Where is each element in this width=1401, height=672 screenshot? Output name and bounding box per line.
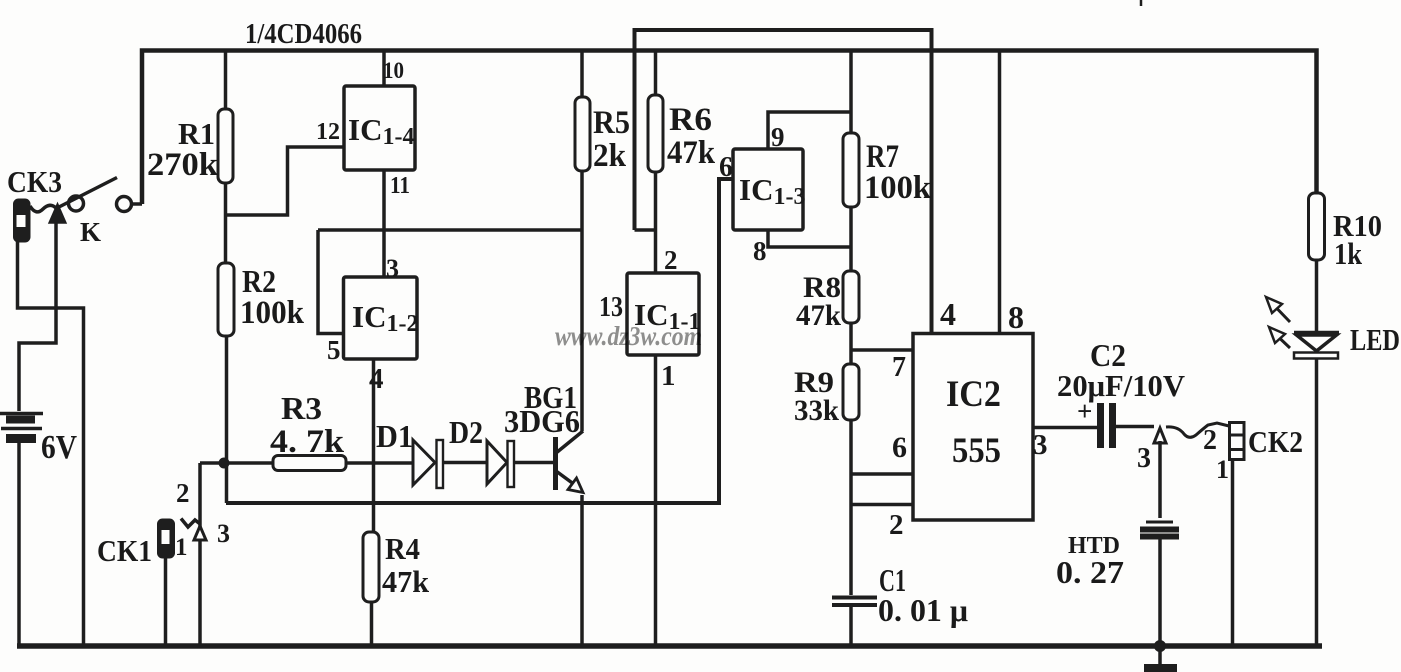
svg-text:D1: D1 [376, 418, 413, 454]
IC U2 555 timer [913, 334, 1033, 521]
svg-text:11: 11 [390, 173, 410, 199]
resistor R2 [218, 263, 234, 463]
svg-text:12: 12 [316, 119, 340, 145]
jack CK1 [158, 519, 175, 558]
pin 3 wire [1033, 426, 1097, 430]
resistor R8 [843, 271, 859, 323]
svg-text:3: 3 [1033, 429, 1048, 461]
pin 4 label [940, 296, 956, 332]
svg-text:R4: R4 [385, 531, 420, 566]
pin 3 wire [382, 230, 386, 278]
wire loop jog to R6 line [635, 228, 656, 232]
scan mark [1140, 0, 1143, 6]
label R8 47k [796, 271, 841, 332]
label R6 47k [667, 102, 716, 171]
label CK2 [1137, 424, 1303, 484]
resistor R7 [843, 51, 859, 271]
svg-text:D2: D2 [449, 414, 483, 450]
svg-text:CK3: CK3 [7, 164, 62, 199]
svg-text:IC2: IC2 [946, 374, 1001, 415]
svg-text:9: 9 [771, 122, 785, 152]
pin 8 wire [998, 51, 1002, 334]
label R5 2k [593, 105, 630, 174]
label R2 100k [240, 263, 305, 331]
battery 6V [0, 414, 43, 647]
label LED [1350, 322, 1400, 357]
wire dot to feedback line [225, 463, 229, 503]
wire CK3 sleeve to ground rail [18, 241, 84, 644]
label R1 270k [147, 116, 219, 183]
svg-text:CK1: CK1 [97, 533, 152, 568]
label C1 0.01u [878, 562, 968, 628]
svg-text:2k: 2k [593, 138, 627, 174]
label R10 1k [1333, 208, 1382, 271]
svg-text:1k: 1k [1334, 236, 1363, 271]
capacitor C2 [1101, 403, 1155, 448]
svg-text:K: K [80, 217, 101, 247]
svg-text:7: 7 [892, 352, 906, 383]
svg-text:100k: 100k [864, 170, 932, 206]
svg-text:1: 1 [175, 534, 188, 561]
svg-text:R1: R1 [178, 116, 215, 151]
op switch IC1-3 [733, 149, 803, 230]
svg-text:1: 1 [1216, 455, 1229, 484]
svg-text:0. 27: 0. 27 [1056, 554, 1124, 590]
resistor R3 [224, 456, 413, 471]
op switch IC1-4 [344, 86, 415, 170]
pin 8 wire [768, 230, 851, 247]
svg-text:R2: R2 [242, 263, 276, 299]
svg-text:4: 4 [369, 363, 384, 395]
svg-text:6: 6 [719, 152, 733, 183]
pin 2 label [664, 245, 678, 275]
label R7 100k [864, 139, 932, 206]
pin 4 wire down through R3 node to R4 [372, 359, 376, 532]
svg-text:33k: 33k [794, 394, 839, 427]
svg-text:3: 3 [386, 254, 399, 283]
svg-text:2: 2 [176, 478, 190, 508]
svg-text:3: 3 [1137, 443, 1151, 474]
svg-text:6: 6 [892, 431, 907, 464]
label CK1 [97, 478, 230, 568]
svg-text:6V: 6V [41, 429, 77, 466]
wire IC1-4 pin11 to R5 bottom [318, 228, 582, 232]
resistor R5 [575, 51, 590, 431]
pin 10 wire [382, 51, 386, 87]
pin 11 wire [382, 170, 386, 230]
diode D2 [487, 441, 554, 487]
jack CK2 [1154, 423, 1244, 460]
pin 1 wire to ground rail [654, 355, 658, 644]
wire CK2 tip down to HTD [1158, 441, 1162, 518]
svg-text:47k: 47k [796, 299, 841, 332]
svg-text:1/4CD4066: 1/4CD4066 [245, 19, 362, 50]
svg-text:3: 3 [217, 519, 230, 548]
svg-text:R3: R3 [281, 390, 322, 426]
svg-text:100k: 100k [240, 295, 305, 331]
label HTD 0.27 [1056, 533, 1124, 590]
wire CK3 tip to battery [19, 222, 56, 411]
svg-text:R5: R5 [593, 105, 630, 141]
svg-text:2: 2 [664, 245, 678, 275]
wire CK2 sleeve to ground [1231, 459, 1235, 644]
svg-text:4: 4 [940, 296, 956, 332]
label R9 33k [794, 366, 839, 427]
ground symbol [1144, 646, 1177, 668]
svg-text:LED: LED [1350, 322, 1400, 357]
LED diode [1294, 333, 1339, 646]
svg-text:www.dz3w.com: www.dz3w.com [555, 321, 702, 351]
watermark www.dz3w.com [555, 321, 702, 351]
diode D1 [413, 440, 487, 488]
label pin 12 [316, 119, 340, 145]
wire CK1 contact to R3 node and ground [166, 463, 225, 644]
wire upper loop IC1-1 pin2 to IC2 pin4 [635, 30, 932, 334]
svg-text:3DG6: 3DG6 [504, 403, 580, 439]
label R3 4.7k [270, 390, 345, 460]
svg-text:4. 7k: 4. 7k [270, 424, 345, 460]
resistor R1 [218, 51, 233, 265]
node R3-left junction dot [219, 458, 230, 469]
jack CK3 [14, 199, 67, 242]
wire feedback line from node to IC1-3 pin6 [226, 179, 733, 503]
resistor R10 [1309, 193, 1325, 332]
svg-text:CK2: CK2 [1248, 424, 1303, 459]
resistor R6 [648, 51, 663, 273]
wire pin 5 of IC1-2 [318, 230, 344, 334]
svg-text:10: 10 [383, 58, 404, 83]
label R4 47k [382, 531, 430, 599]
switch K [57, 178, 142, 212]
label CK3 [7, 164, 62, 199]
svg-text:20μF/10V: 20μF/10V [1057, 368, 1186, 403]
resistor R4 [363, 532, 379, 644]
label K [80, 217, 101, 247]
op switch IC1-2 [344, 277, 418, 359]
svg-text:2: 2 [1203, 425, 1217, 456]
label 1/4CD4066 [245, 19, 362, 50]
svg-text:270k: 270k [147, 147, 219, 183]
wire pin 12 of IC1-4 [226, 147, 345, 215]
label 6V [41, 429, 77, 466]
wire R8 to R9 with pin7 tap [851, 323, 913, 364]
capacitor C1 [832, 598, 877, 645]
wire emitter to ground rail [580, 495, 584, 644]
jack CK1 lever contact [181, 519, 206, 541]
pin 9 wire [768, 112, 851, 149]
op switch IC1-1 [627, 273, 699, 355]
wire top supply rail [142, 51, 1317, 205]
svg-text:8: 8 [1008, 299, 1024, 335]
svg-text:0. 01 μ: 0. 01 μ [878, 592, 968, 628]
svg-text:2: 2 [889, 509, 904, 541]
label C2 20uF/10V [1057, 337, 1186, 426]
svg-text:5: 5 [327, 335, 341, 365]
buzzer HTD 0.27 [1140, 522, 1179, 646]
wire R9 bottom to C1 with pin6 pin2 taps [851, 420, 913, 595]
node ground junction dot [1154, 640, 1166, 652]
resistor R9 [843, 364, 859, 420]
transistor BG1 3DG6 [556, 431, 584, 493]
LED emission arrows [1266, 297, 1290, 348]
svg-text:47k: 47k [667, 135, 716, 171]
wire bottom ground rail [17, 643, 1322, 649]
svg-text:R6: R6 [669, 102, 712, 138]
svg-text:13: 13 [599, 292, 623, 323]
svg-text:47k: 47k [382, 564, 430, 599]
svg-text:1: 1 [661, 360, 676, 392]
svg-text:8: 8 [753, 236, 767, 266]
svg-text:555: 555 [952, 430, 1001, 470]
